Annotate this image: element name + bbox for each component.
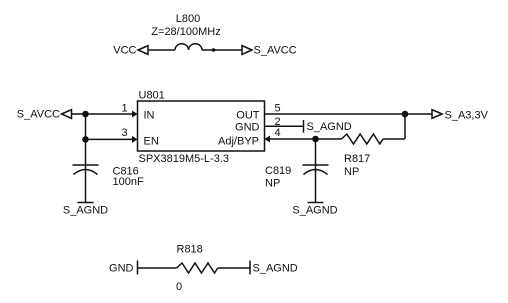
net label VCC (113, 45, 136, 57)
svg-text:VCC: VCC (113, 45, 136, 57)
junction node B (82, 136, 89, 143)
wire OUT to node C (265, 113, 406, 115)
net label S_A3,3V (445, 110, 489, 122)
svg-text:1: 1 (121, 103, 127, 115)
pin 1 arrowhead (filled, into IC) (132, 111, 138, 118)
net label S_AGND (pin2) (307, 121, 352, 133)
U801 reference label (139, 90, 165, 102)
C819 label (265, 165, 291, 177)
svg-text:S_A3,3V: S_A3,3V (445, 110, 489, 122)
svg-text:3: 3 (121, 127, 127, 139)
pin name EN (144, 136, 159, 148)
svg-text:Adj/BYP: Adj/BYP (218, 136, 259, 148)
capacitor C819 top plate (303, 164, 329, 166)
capacitor C816 bottom plate (arc) (74, 170, 98, 175)
pin 2 number (274, 116, 280, 128)
pin name Adj/BYP (218, 136, 259, 148)
inductor L800 value Z=28/100MHz (151, 26, 220, 38)
svg-text:R817: R817 (344, 153, 370, 165)
ground bar S_AGND (C816) (78, 202, 94, 204)
port arrow S_AVCC left (open, pointing left) (62, 110, 72, 119)
pin 5 number (274, 103, 280, 115)
wire node B to pin EN (86, 138, 134, 140)
svg-text:0: 0 (176, 281, 182, 293)
svg-text:U801: U801 (139, 90, 165, 102)
pin name OUT (236, 110, 260, 122)
port arrow S_AVCC (open, pointing right) (242, 46, 252, 55)
R818 value 0 (176, 281, 182, 293)
svg-text:4: 4 (274, 127, 280, 139)
resistor R817 (342, 134, 384, 144)
wire S_AVCC to pin IN (72, 113, 134, 115)
svg-text:S_AGND: S_AGND (292, 205, 337, 217)
svg-text:5: 5 (274, 103, 280, 115)
wire R817 to corner (383, 138, 405, 140)
inductor L800 label (176, 13, 200, 25)
op-amp U1: voltage regulator U801 box (138, 101, 265, 151)
svg-text:IN: IN (144, 110, 155, 122)
net label S_AGND (bottom) (253, 263, 298, 275)
port arrow VCC (open, pointing left) (138, 46, 148, 55)
wire corner up to node C (404, 114, 406, 139)
pin 4 arrowhead (filled, into IC) (265, 136, 271, 143)
C816 label (113, 166, 139, 178)
svg-text:C819: C819 (265, 165, 291, 177)
port arrow S_A3,3V (open, pointing right) (432, 110, 442, 119)
svg-text:GND: GND (235, 122, 260, 134)
pin 4 number (274, 127, 280, 139)
svg-text:S_AGND: S_AGND (63, 205, 108, 217)
net stub bar GND (137, 261, 139, 275)
svg-text:S_AVCC: S_AVCC (17, 108, 60, 120)
svg-text:S_AVCC: S_AVCC (254, 45, 297, 57)
inductor L800 symbol (175, 44, 202, 50)
wire node C to port S_A3,3V (405, 113, 433, 115)
resistor R818 (177, 263, 218, 273)
C819 value NP (265, 178, 280, 190)
svg-text:NP: NP (344, 166, 359, 178)
svg-text:NP: NP (265, 178, 280, 190)
svg-text:EN: EN (144, 136, 159, 148)
ground bar S_AGND (C819) (308, 202, 324, 204)
net label S_AVCC (top) (254, 45, 297, 57)
pin name IN (144, 110, 155, 122)
R817 value NP (344, 166, 359, 178)
svg-text:OUT: OUT (236, 110, 260, 122)
wire node B down through C816 (85, 139, 87, 202)
svg-text:L800: L800 (176, 13, 200, 25)
wire R818 to S_AGND (218, 267, 250, 269)
wire node D down through C819 (315, 139, 317, 203)
svg-text:S_AGND: S_AGND (253, 263, 298, 275)
pin 3 number (121, 127, 127, 139)
R818 label (177, 244, 203, 256)
svg-text:S_AGND: S_AGND (307, 121, 352, 133)
svg-text:SPX3819M5-L-3.3: SPX3819M5-L-3.3 (139, 153, 230, 165)
svg-text:GND: GND (109, 263, 134, 275)
junction node A (82, 111, 89, 118)
svg-text:100nF: 100nF (113, 176, 144, 188)
pin 3 arrowhead (filled, into IC) (132, 136, 138, 143)
net stub bar S_AGND (pin2) (303, 120, 305, 133)
junction dot on top wire (212, 48, 216, 52)
svg-text:R818: R818 (177, 244, 203, 256)
junction node D (312, 136, 319, 143)
wire node A down to node B (85, 114, 87, 139)
C816 value 100nF (113, 176, 144, 188)
capacitor C819 bottom plate (arc) (304, 170, 328, 175)
net label S_AGND (C816) (63, 205, 108, 217)
wire L800 to S_AVCC (202, 49, 242, 51)
svg-text:Z=28/100MHz: Z=28/100MHz (151, 26, 220, 38)
pin name GND (235, 122, 260, 134)
wire GND pin to net stub (265, 125, 304, 127)
wire VCC to L800 (148, 49, 175, 51)
net label GND (bottom) (109, 263, 134, 275)
wire pin4 to node D (270, 138, 342, 140)
wire GND to R818 (138, 267, 177, 269)
U801 part value SPX3819M5-L-3.3 (139, 153, 230, 165)
capacitor C816 top plate (73, 164, 99, 166)
junction node C (402, 111, 409, 118)
net stub bar S_AGND (bottom) (249, 261, 251, 275)
net label S_AVCC (left) (17, 108, 60, 120)
R817 label (344, 153, 370, 165)
net label S_AGND (C819) (292, 205, 337, 217)
pin 1 number (121, 103, 127, 115)
